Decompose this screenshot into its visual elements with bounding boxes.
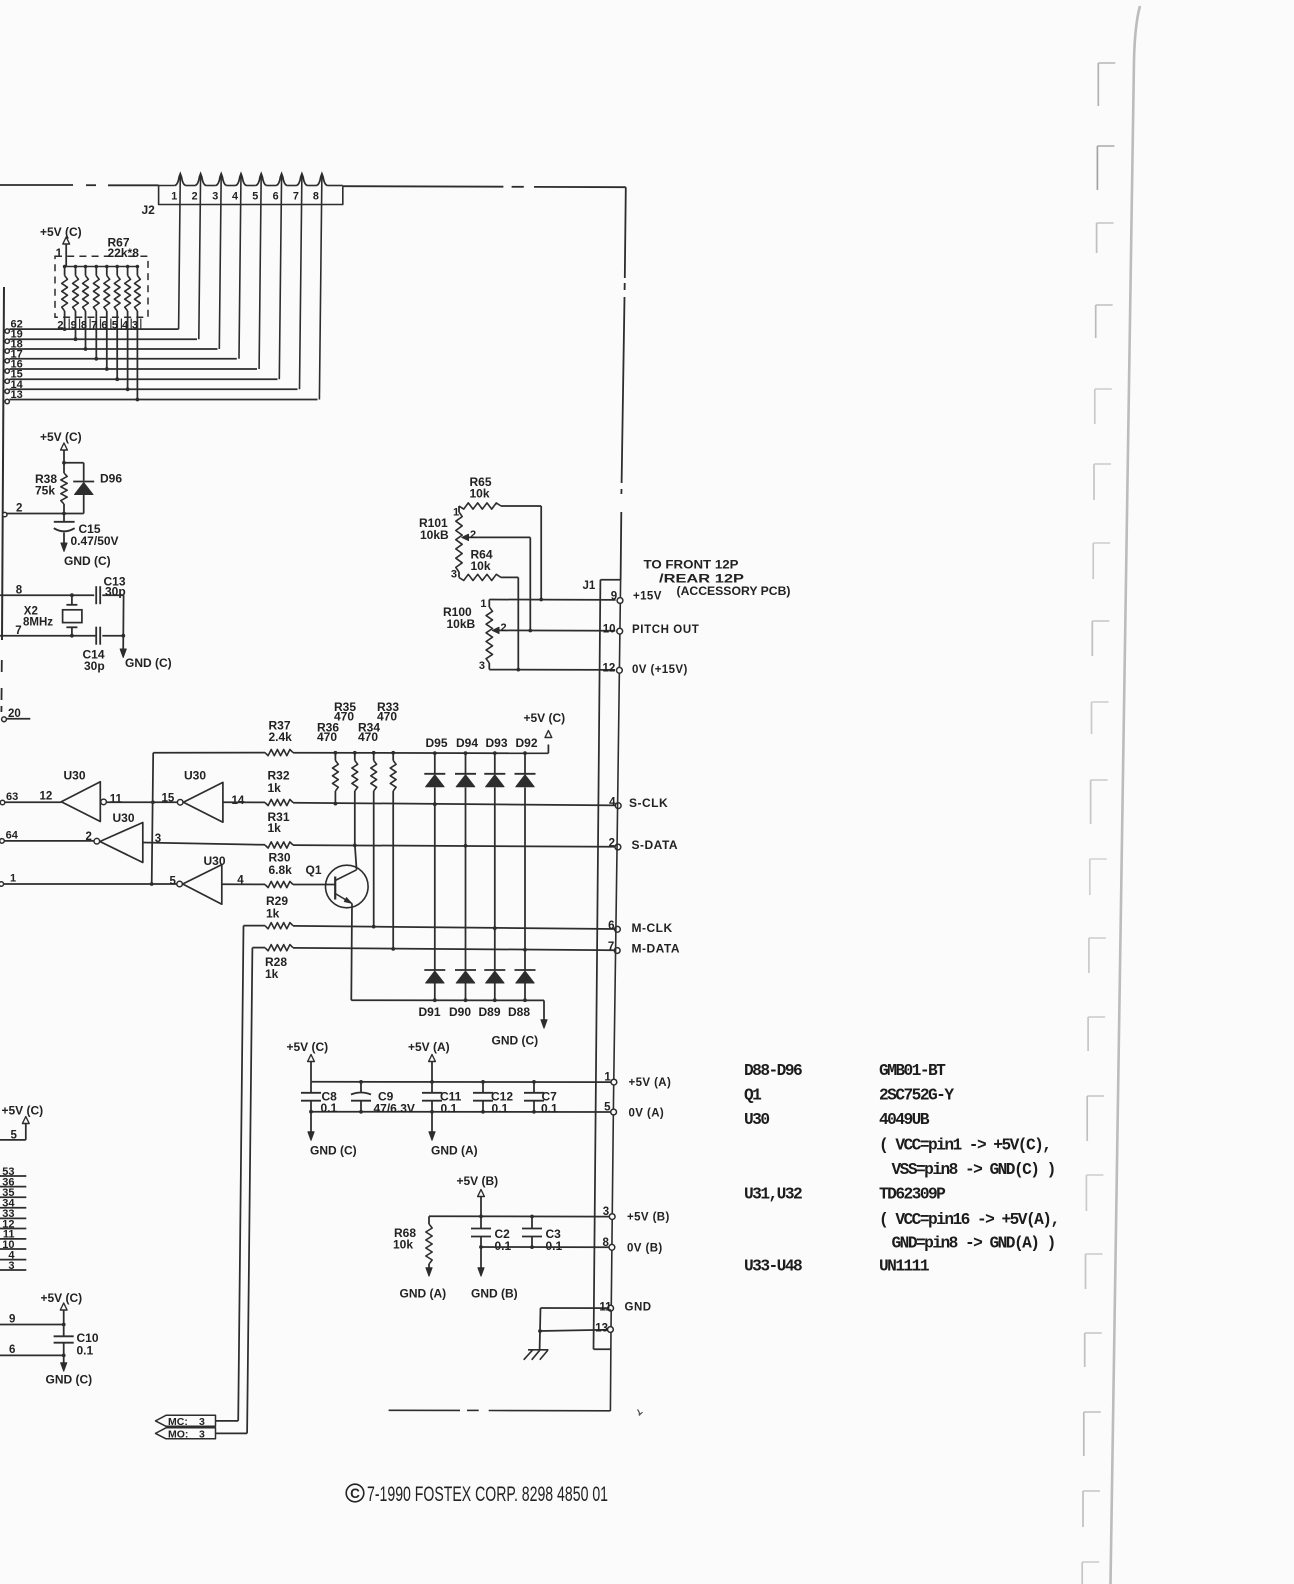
svg-text:Q1: Q1	[306, 863, 322, 877]
resistor R29 1k	[265, 923, 293, 929]
wire - pin 64 to U30 inverter 3 output	[4, 840, 94, 842]
resistor R31 1k	[265, 842, 293, 848]
svg-text:8: 8	[602, 1237, 609, 1249]
node - D93 junction on signal row	[493, 926, 497, 930]
node - bus/inverter junction	[151, 800, 155, 804]
svg-text:22k*8: 22k*8	[108, 246, 140, 260]
capacitor C3	[531, 1217, 533, 1229]
IC pin 1	[0, 882, 4, 887]
capacitor C14 30p	[95, 627, 97, 645]
IC pin 13	[5, 399, 9, 403]
vertical bus wire (R37 to pin1 row)	[152, 753, 154, 884]
IC pin 64	[0, 839, 4, 844]
svg-text:9: 9	[611, 591, 617, 603]
svg-text:47/6.3V: 47/6.3V	[374, 1102, 415, 1116]
svg-text:0.1: 0.1	[441, 1102, 458, 1116]
connector J2 body	[159, 185, 343, 204]
svg-text:D94: D94	[456, 736, 478, 750]
svg-text:12: 12	[603, 663, 616, 675]
power +5V(C) arrow (pin 5)	[22, 1117, 29, 1124]
wire - J2 pin 6 to IC pin row	[279, 174, 281, 379]
IC pin 17	[5, 359, 9, 363]
wire - S-CLK row to J1 pin 4	[293, 803, 616, 806]
svg-text:Q1: Q1	[744, 1087, 762, 1105]
wire - R67 element 8 lead to row	[136, 311, 138, 400]
connector J2 pin 2 (bump symbol)	[195, 174, 206, 186]
resistor R64 10k	[459, 574, 501, 580]
wire - J2 pin 8 to IC pin row	[319, 174, 322, 400]
svg-text:+15V: +15V	[633, 591, 662, 603]
wire - J2 pin 3 to IC pin row	[219, 174, 221, 349]
svg-text:UN1111: UN1111	[879, 1258, 930, 1276]
svg-text:1: 1	[171, 191, 177, 203]
svg-text:30p: 30p	[84, 659, 105, 673]
svg-text:D89: D89	[479, 1005, 501, 1019]
capacitor C12	[482, 1082, 484, 1093]
wire - IC pin 19 row	[9, 338, 197, 340]
connector J1 pin 7 (M-DATA)	[614, 948, 620, 954]
svg-text:+5V (C): +5V (C)	[41, 1291, 83, 1305]
wire - J2 pin 5 to IC pin row	[259, 174, 261, 369]
svg-text:D91: D91	[419, 1005, 441, 1019]
svg-text:2.4k: 2.4k	[269, 730, 293, 744]
wire - Q1 emitter to ground bus	[350, 904, 353, 1001]
diode D94 (clamp to +5V)	[455, 773, 476, 775]
resistor R67 element 2	[74, 265, 78, 269]
svg-text:MO:: MO:	[168, 1428, 188, 1440]
wire - IC pin 13 row	[9, 399, 317, 401]
svg-text:/REAR 12P: /REAR 12P	[659, 574, 744, 586]
resistor R67 element 6	[115, 265, 119, 269]
svg-text:GND: GND	[625, 1301, 652, 1313]
wire - Q1 collector to S-DATA row	[355, 845, 357, 869]
svg-text:0.1: 0.1	[541, 1102, 558, 1116]
svg-text:2: 2	[609, 838, 615, 850]
tick - R67 pin label separator	[120, 319, 122, 330]
svg-text:4: 4	[232, 191, 238, 203]
diode D91 (clamp to GND)	[424, 969, 445, 971]
page edge line (scan artifact)	[1111, 6, 1141, 1584]
tick - R67 pin label separator	[140, 319, 142, 330]
connector J1 pin 3 (+5V B)	[609, 1214, 615, 1220]
wire - J1 pin 13 row	[540, 1330, 608, 1331]
op-amp U30 inverter 4 (pins 5,4)	[177, 881, 183, 887]
capacitor C13 30p	[95, 586, 97, 604]
svg-text:1: 1	[480, 598, 486, 610]
connector J1 body	[600, 579, 621, 581]
svg-text:5: 5	[252, 191, 258, 203]
wire - board boundary right vertical (dash-dot)	[625, 187, 626, 278]
svg-text:470: 470	[358, 730, 378, 744]
resistor R67 element 5	[105, 265, 109, 269]
crystal X2 8MHz	[71, 595, 73, 605]
svg-text:0.47/50V: 0.47/50V	[71, 534, 119, 548]
ground GND(C) below C8	[310, 1112, 312, 1133]
wire - junction to D96 top	[64, 462, 84, 464]
svg-text:D92: D92	[516, 736, 538, 750]
svg-text:12: 12	[40, 791, 53, 803]
svg-text:5: 5	[604, 1102, 611, 1114]
wire - R67 element 7 lead to row	[127, 311, 129, 389]
svg-text:7-1990 FOSTEX CORP. 8298 4850: 7-1990 FOSTEX CORP. 8298 4850 01	[367, 1483, 608, 1506]
wire - pin 8 row	[0, 594, 94, 596]
wire - diode column D95/D91	[433, 751, 437, 755]
wire - R67 element 5 lead to row	[106, 311, 108, 369]
power +5V(C) arrow (cap row)	[308, 1055, 315, 1062]
svg-text:GND (C): GND (C)	[125, 656, 172, 670]
svg-text:GND=pin8 -> GND(A) ): GND=pin8 -> GND(A) )	[892, 1235, 1055, 1253]
wire - inverter1 input to bus	[106, 801, 152, 803]
IC pin 18	[5, 349, 9, 353]
IC pin 14	[5, 389, 9, 393]
node - D92 junction on signal row	[523, 948, 527, 952]
capacitor C9	[360, 1082, 362, 1093]
ground GND(A) arrow below R68	[426, 1268, 432, 1277]
wire - R67 common bus	[65, 266, 138, 268]
wire - J1 right edge / boundary vertical	[610, 580, 620, 1411]
wire - +5V(B) row to J1 pin 3	[429, 1215, 612, 1217]
IC pin 20	[2, 717, 7, 722]
wire - R29 vertical to MC flag	[238, 926, 243, 1421]
resistor R67 element 8	[136, 265, 140, 269]
svg-text:8: 8	[313, 191, 319, 203]
wire - R35 lead down	[354, 791, 356, 845]
wire - C14 to GND junction	[102, 635, 123, 637]
svg-text:5: 5	[170, 875, 177, 887]
wire - J2 pin 7 to IC pin row	[300, 174, 302, 389]
wire - MC flag to R29 vertical	[216, 1420, 239, 1422]
svg-text:MC:: MC:	[168, 1416, 188, 1428]
svg-text:VSS=pin8 -> GND(C) ): VSS=pin8 -> GND(C) )	[892, 1161, 1055, 1179]
diode D92 (clamp to +5V)	[515, 773, 536, 775]
wire - pin 1 row to inverter 4	[4, 883, 152, 885]
wire - C13 to GND corner	[102, 594, 123, 596]
resistor R30 6.8k	[222, 883, 265, 885]
svg-text:U33-U48: U33-U48	[744, 1258, 802, 1276]
svg-text:GMB01-BT: GMB01-BT	[879, 1062, 946, 1080]
svg-text:D93: D93	[486, 736, 508, 750]
svg-text:3: 3	[199, 1416, 205, 1428]
resistor R37 2.4k	[265, 750, 293, 756]
svg-text:0.1: 0.1	[495, 1239, 512, 1253]
capacitor C11	[431, 1082, 433, 1093]
wire - pin 20 stub	[6, 718, 30, 720]
net flag MC:3	[156, 1415, 216, 1426]
svg-text:TO FRONT 12P: TO FRONT 12P	[644, 560, 739, 572]
connector J1 pin 9 (+15V)	[617, 598, 623, 604]
svg-text:U30: U30	[113, 811, 135, 825]
svg-text:D90: D90	[449, 1005, 471, 1019]
svg-text:10k: 10k	[393, 1238, 413, 1252]
wire - R65 to +15V row corner	[501, 505, 541, 507]
ground GND(A) below C11	[431, 1112, 433, 1133]
wire - pin 2 row to R38/C15/D96	[7, 513, 84, 515]
svg-text:+5V (C): +5V (C)	[40, 430, 82, 444]
svg-text:C: C	[350, 1486, 360, 1501]
svg-text:14: 14	[232, 795, 245, 807]
wire - M-DATA row to J1 pin 7	[293, 948, 615, 950]
wire - bottom boundary (dash-dot)	[389, 1409, 460, 1411]
resistor R35 470	[353, 751, 357, 755]
wire - MO flag to R28 vertical	[216, 1432, 248, 1434]
svg-text:0.1: 0.1	[321, 1101, 338, 1115]
svg-text:( VCC=pin1 -> +5V(C),: ( VCC=pin1 -> +5V(C),	[879, 1137, 1050, 1155]
wire - diode column D93/D89	[493, 751, 497, 755]
wire - bus to inverter2 output	[153, 801, 178, 803]
svg-text:1k: 1k	[266, 907, 280, 921]
svg-text:TD62309P: TD62309P	[879, 1186, 946, 1204]
connector J1 pin 6 (M-CLK)	[615, 926, 621, 932]
wire - board boundary top left (dash-dot)	[0, 184, 73, 186]
copyright line	[346, 1484, 364, 1502]
svg-text:J2: J2	[142, 203, 156, 217]
diode D88 (clamp to GND)	[515, 969, 536, 971]
svg-text:( VCC=pin16 -> +5V(A),: ( VCC=pin16 -> +5V(A),	[879, 1211, 1059, 1229]
IC pin 16	[5, 369, 9, 373]
wire - IC pin 16 row	[9, 368, 257, 370]
potentiometer R100 wiper (pin 2)	[492, 627, 499, 633]
svg-text:10k: 10k	[470, 487, 490, 501]
node - R38/D96 top junction	[62, 461, 66, 465]
svg-text:3: 3	[603, 1206, 609, 1218]
svg-text:3: 3	[212, 191, 218, 203]
wire - pin 63 to U30 inverter 1 output	[5, 801, 62, 803]
resistor R32 1k	[265, 799, 293, 805]
svg-text:2SC752G-Y: 2SC752G-Y	[879, 1087, 954, 1105]
wire - J1 pin 11 GND row	[541, 1307, 609, 1309]
svg-text:3: 3	[199, 1428, 205, 1440]
svg-text:8MHz: 8MHz	[23, 617, 53, 629]
svg-text:1k: 1k	[265, 967, 279, 981]
svg-text:GND (C): GND (C)	[46, 1373, 93, 1387]
svg-text:0.1: 0.1	[546, 1239, 563, 1253]
diode D93 (clamp to +5V)	[484, 773, 505, 775]
op-amp U30 inverter 3 (pins 2,3)	[94, 838, 100, 844]
svg-text:1k: 1k	[268, 781, 282, 795]
connector J2 pin 7 (bump symbol)	[296, 174, 307, 186]
capacitor C15 0.47/50V (polarized)	[63, 514, 65, 522]
capacitor C10 0.1	[54, 1335, 74, 1337]
svg-text:3: 3	[479, 660, 485, 672]
potentiometer R101 wiper (pin 2)	[462, 534, 469, 540]
capacitor C7	[533, 1082, 535, 1093]
wire - board boundary top right (dash-dot)	[343, 185, 504, 188]
wire - +15V row	[489, 599, 615, 601]
svg-text:6: 6	[273, 191, 279, 203]
wire - R64 to 0V row corner	[501, 576, 518, 578]
resistor R34 470	[372, 751, 376, 755]
svg-text:1: 1	[56, 248, 63, 260]
tick - R67 pin label separator	[110, 319, 112, 330]
connector J1 pin 1 (+5V A)	[611, 1079, 617, 1085]
op-amp U30 inverter 1 (pins 12,11)	[61, 782, 100, 822]
power +5V(C) arrow (pin 9)	[60, 1303, 67, 1310]
resistor R68 10k	[428, 1216, 430, 1224]
svg-text:J1: J1	[583, 580, 596, 592]
svg-text:7: 7	[293, 191, 299, 203]
wire - R34 lead down	[373, 791, 375, 927]
wire - R67 element 3 lead to row	[85, 311, 87, 349]
wire - pin 5 row	[0, 1139, 26, 1141]
svg-text:11: 11	[599, 1302, 612, 1314]
svg-text:S-CLK: S-CLK	[629, 796, 668, 810]
wire - R33 lead down	[392, 791, 394, 949]
resistor R67 element 4	[95, 265, 99, 269]
IC pin 63	[0, 800, 5, 805]
svg-text:+5V (C): +5V (C)	[524, 711, 566, 725]
connector J1 pin 5 (0V A)	[611, 1109, 617, 1115]
resistor R67 element 3	[84, 265, 88, 269]
svg-text:M-DATA: M-DATA	[632, 942, 681, 956]
svg-text:0V (A): 0V (A)	[629, 1108, 665, 1120]
connector J2 pin 6 (bump symbol)	[276, 174, 287, 186]
svg-text:+5V (B): +5V (B)	[457, 1174, 499, 1188]
svg-text:GND (C): GND (C)	[310, 1144, 357, 1158]
resistor R67 element 1	[63, 265, 67, 269]
svg-text:U30: U30	[64, 768, 86, 782]
wire - IC pin 62 row	[9, 328, 178, 330]
svg-text:2: 2	[86, 831, 92, 843]
diode D96	[73, 481, 94, 483]
svg-text:7: 7	[608, 941, 614, 953]
wire - pin 6 row	[0, 1354, 64, 1356]
svg-text:+5V (A): +5V (A)	[408, 1040, 450, 1054]
IC pin 19	[5, 339, 9, 343]
wire - J2 pin 2 to IC pin row	[199, 174, 201, 339]
wire - R67 element 1 lead to row	[64, 311, 66, 329]
svg-text:D88: D88	[508, 1005, 530, 1019]
svg-text:GND (B): GND (B)	[471, 1287, 518, 1301]
IC pin 62	[5, 329, 9, 333]
svg-text:D88-D96: D88-D96	[744, 1062, 802, 1080]
connector J1 pin 12 (0V +15V)	[617, 667, 623, 673]
diode D90 (clamp to GND)	[455, 969, 476, 971]
svg-text:470: 470	[317, 730, 337, 744]
svg-text:0.1: 0.1	[77, 1344, 94, 1358]
pencil mark (scan artifact)	[638, 1410, 643, 1416]
resistor network R67 dashed outline	[55, 256, 148, 317]
svg-text:U30: U30	[204, 854, 226, 868]
resistor R67 element 7	[126, 265, 130, 269]
wire - R36 lead down	[334, 791, 336, 804]
svg-text:+5V (A): +5V (A)	[629, 1077, 672, 1089]
wire - diode column D92/D88	[523, 751, 527, 755]
wire - 0V(A) row to J1 pin 5	[311, 1111, 614, 1113]
svg-text:3: 3	[451, 568, 457, 580]
wire - top line through J2 with pin bumps	[159, 185, 175, 187]
wire - M-CLK row from R29 corner	[244, 925, 266, 927]
net flag MO:3	[156, 1428, 216, 1439]
svg-text:1: 1	[604, 1072, 611, 1084]
diode D89 (clamp to GND)	[484, 969, 505, 971]
svg-text:+5V (C): +5V (C)	[287, 1040, 329, 1054]
svg-text:6: 6	[9, 1344, 15, 1356]
wire - R101 wiper to PITCH row	[529, 537, 531, 630]
connector J2 pin 4 (bump symbol)	[236, 174, 247, 186]
IC U? body edge (left, partially off-page)	[2, 287, 4, 640]
potentiometer R100 10kB	[488, 600, 490, 608]
svg-text:U31,U32: U31,U32	[744, 1186, 802, 1204]
wire - IC pin 18 row	[9, 348, 217, 350]
svg-text:U30: U30	[744, 1111, 769, 1129]
ground GND(C) arrow below C10	[63, 1355, 65, 1364]
resistor R65 10k	[459, 503, 501, 509]
node - D94 junction on signal row	[464, 844, 468, 848]
svg-text:10kB: 10kB	[447, 617, 476, 631]
power +5V(C) arrow above R38	[61, 443, 68, 450]
svg-text:+5V (C): +5V (C)	[40, 225, 82, 239]
op-amp U30 inverter 2 (pins 15,14)	[177, 800, 183, 806]
connector J2 pin 3 (bump symbol)	[216, 174, 227, 186]
svg-text:+5V (B): +5V (B)	[627, 1212, 670, 1224]
connector J2 pin 5 (bump symbol)	[256, 174, 267, 186]
wire - R67 element 2 lead to row	[75, 311, 77, 339]
resistor R28 1k	[265, 945, 293, 951]
wire - +5V(C) pull-up row	[293, 752, 548, 755]
ground GND(C) arrow (diode matrix)	[543, 1000, 545, 1021]
connector J2 pin 8 (bump symbol)	[316, 174, 327, 186]
svg-text:(ACCESSORY PCB): (ACCESSORY PCB)	[677, 586, 791, 598]
svg-text:0V (B): 0V (B)	[627, 1242, 663, 1254]
svg-text:15: 15	[162, 793, 175, 805]
svg-text:M-CLK: M-CLK	[632, 921, 673, 935]
wire - pin 9 row	[0, 1324, 64, 1326]
capacitor C8	[310, 1082, 312, 1093]
wire - IC pin 17 row	[9, 358, 236, 360]
svg-text:64: 64	[6, 829, 19, 841]
power +5V(A) arrow (cap row)	[429, 1055, 436, 1062]
resistor R33 470	[391, 751, 395, 755]
ground GND(B) arrow below C2	[480, 1247, 482, 1269]
svg-text:11: 11	[110, 793, 123, 805]
svg-text:75k: 75k	[35, 484, 55, 498]
connector J1 pin 2 (S-DATA)	[615, 844, 621, 850]
wire - IC pin 14 row	[9, 388, 297, 390]
power +5V(B) arrow	[478, 1190, 485, 1197]
svg-text:10kB: 10kB	[420, 528, 449, 542]
connector J1 pin 11 (GND)	[608, 1305, 614, 1311]
svg-text:GND (A): GND (A)	[400, 1287, 447, 1301]
wire - R67 element 4 lead to row	[95, 311, 97, 359]
wire - R28 vertical to MO flag	[247, 948, 252, 1434]
power +5V(C) arrow (diode matrix)	[547, 745, 549, 754]
connector J1 pin 10 (PITCH OUT)	[617, 628, 623, 634]
tick - R67 pin label separator	[79, 319, 81, 330]
svg-text:30p: 30p	[105, 585, 126, 599]
node - D95 junction on signal row	[433, 802, 437, 806]
diode D95 (clamp to +5V)	[424, 773, 445, 775]
ground GND(C) arrow right of C14	[122, 636, 124, 651]
svg-text:1: 1	[10, 873, 16, 885]
svg-text:2: 2	[470, 529, 476, 541]
svg-text:0V (+15V): 0V (+15V)	[632, 664, 688, 676]
svg-text:2: 2	[501, 622, 507, 634]
tick - R67 pin label separator	[89, 319, 91, 330]
connector J2 pin 1 (bump symbol)	[175, 174, 186, 186]
wire - J2 pin 1 to IC pin row	[179, 174, 181, 329]
tick - R67 pin label separator	[130, 319, 132, 330]
svg-text:63: 63	[6, 791, 18, 803]
connector J1 pin 13	[608, 1327, 614, 1333]
svg-text:PITCH OUT: PITCH OUT	[632, 624, 699, 636]
svg-text:+5V (C): +5V (C)	[2, 1104, 44, 1118]
IC pin 2	[3, 512, 7, 516]
svg-text:GND (A): GND (A)	[431, 1144, 478, 1158]
wire - pin 7 row	[0, 635, 96, 637]
svg-text:10k: 10k	[471, 559, 491, 573]
page edge notches (scan artifact)	[1098, 63, 1115, 106]
svg-text:470: 470	[377, 710, 397, 724]
